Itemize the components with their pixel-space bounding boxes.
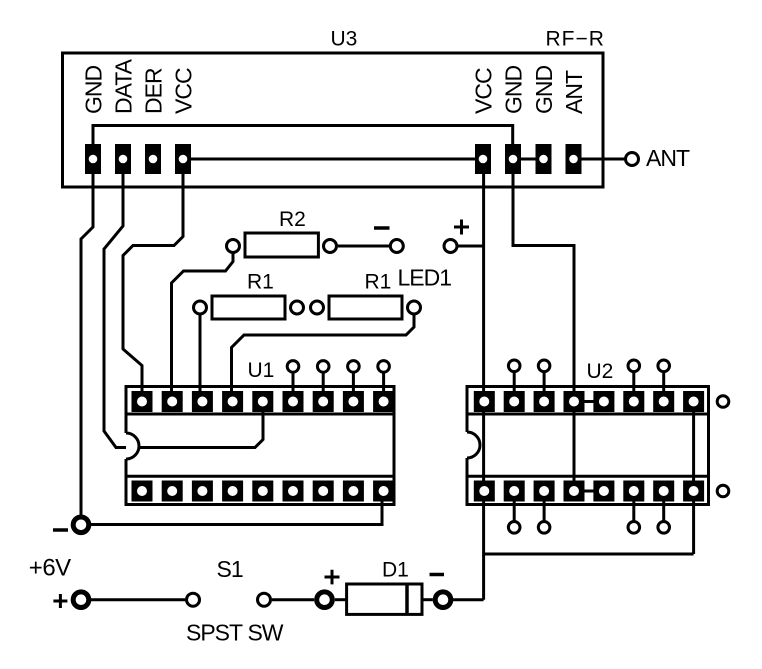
pad U2 top pin 2 xyxy=(504,391,525,412)
terminal R1b left xyxy=(311,301,324,314)
svg-text:R2: R2 xyxy=(279,208,306,231)
IC U3 outline xyxy=(63,53,604,187)
pad U2 top pin 4 xyxy=(564,391,585,412)
node hole above U2 pin 2 xyxy=(508,360,520,393)
svg-text:D1: D1 xyxy=(382,558,409,581)
pad ANT (RF-R) xyxy=(566,144,582,174)
wire battery plus to S1 xyxy=(91,598,185,601)
pad U1 bottom pin 8 xyxy=(343,481,364,502)
terminal R2 right xyxy=(324,240,337,253)
svg-text:S1: S1 xyxy=(217,556,243,582)
wire D1 anode stub xyxy=(335,598,347,601)
wire GND(RF-R) down to U2 pad T4 xyxy=(513,160,574,491)
svg-text:R1: R1 xyxy=(365,271,392,294)
svg-text:U3: U3 xyxy=(331,28,358,51)
terminal R1a right xyxy=(291,301,304,314)
IC U2 socket outline xyxy=(467,387,709,505)
pad U1 bottom pin 1 xyxy=(132,481,153,502)
wire VCC(U3) to U1 pad T1 xyxy=(123,160,183,401)
plus sign (LED) xyxy=(454,220,469,235)
minus sign (battery) xyxy=(53,528,68,532)
wire D1 cathode to VCC rail xyxy=(443,598,484,601)
terminal R1b right xyxy=(408,301,421,314)
diode D1 cathode terminal xyxy=(435,592,451,608)
svg-text:U1: U1 xyxy=(248,359,275,382)
terminal battery plus xyxy=(73,592,89,608)
svg-text:RF−R: RF−R xyxy=(546,28,605,51)
pad U1 top pin 9 xyxy=(373,391,394,412)
pad U1 top pin 6 xyxy=(283,391,304,412)
svg-text:GND: GND xyxy=(531,66,557,115)
pad U2 bottom pin 7 xyxy=(653,481,674,502)
resistor R1a body xyxy=(212,296,285,319)
resistor R1b body xyxy=(329,296,402,319)
pad DATA (U3) xyxy=(115,144,131,174)
terminal LED minus xyxy=(390,240,403,253)
switch S1 right terminal xyxy=(258,593,271,606)
svg-text:GND: GND xyxy=(500,66,526,115)
pad VCC (RF-R) xyxy=(475,144,491,174)
pad U1 bottom pin 7 xyxy=(313,481,334,502)
node hole right of U2 bottom row xyxy=(717,485,729,497)
wire GND-GND link (RF-R) xyxy=(513,158,544,161)
pad U1 top pin 7 xyxy=(313,391,334,412)
pad U2 top pin 8 xyxy=(683,391,704,412)
wire U2 link pads T4-T5 xyxy=(574,400,604,403)
svg-text:SPST SW: SPST SW xyxy=(186,620,284,646)
IC U1 socket outline xyxy=(126,387,394,505)
minus sign (LED) xyxy=(374,226,390,230)
wire GND(U3) to GND(RF-R) top link xyxy=(93,126,513,161)
wire R1a left to U1 pad T3 xyxy=(199,314,202,401)
pad U2 bottom pin 4 xyxy=(564,481,585,502)
pad U1 top pin 5 xyxy=(252,391,273,412)
IC U1 notch xyxy=(126,433,139,459)
wire R1b right to U1 pad T4 xyxy=(232,314,415,401)
pad U2 bottom pin 3 xyxy=(534,481,555,502)
plus sign (D1) xyxy=(325,570,340,585)
pad U2 top pin 3 xyxy=(534,391,555,412)
wire VCC(RF-R) down through U2 pad1 to D1 cathode node xyxy=(482,160,485,600)
pad U2 top pin 7 xyxy=(653,391,674,412)
wire D1 cathode stub xyxy=(422,598,433,601)
minus sign (D1) xyxy=(430,573,445,577)
terminal ANT circle xyxy=(626,153,639,166)
wire U2 link pads B4-B5 xyxy=(574,490,604,493)
pad U1 bottom pin 5 xyxy=(252,481,273,502)
pad U1 bottom pin 9 xyxy=(373,481,394,502)
wire U2 pad T8 down to bottom loop xyxy=(692,402,695,555)
svg-text:ANT: ANT xyxy=(646,145,690,171)
svg-text:DER: DER xyxy=(140,68,166,114)
pad U1 top pin 1 xyxy=(132,391,153,412)
pad U1 top pin 2 xyxy=(162,391,183,412)
svg-text:VCC: VCC xyxy=(470,68,496,114)
svg-text:LED1: LED1 xyxy=(398,265,452,291)
pad U1 bottom pin 4 xyxy=(222,481,243,502)
wire VCC(U3) to VCC(RF-R) xyxy=(183,158,483,161)
node hole below U2 pin 7 xyxy=(658,499,670,533)
node hole above U2 pin 7 xyxy=(658,360,670,393)
pad U1 top pin 4 xyxy=(222,391,243,412)
node hole right of U2 top row xyxy=(717,396,729,408)
node hole below U2 pin 6 xyxy=(628,499,640,533)
pad U1 top pin 8 xyxy=(343,391,364,412)
wire R2 left to U1 pad T2 xyxy=(172,253,234,401)
node hole above U2 pin 6 xyxy=(628,360,640,393)
svg-text:VCC: VCC xyxy=(170,68,196,114)
pad U2 bottom pin 5 xyxy=(593,481,614,502)
wire S1 to D1 anode xyxy=(272,598,314,601)
pad U2 bottom pin 1 xyxy=(474,481,495,502)
resistor R2 body xyxy=(245,233,318,257)
pad U2 top pin 6 xyxy=(623,391,644,412)
wire plus LED terminal to VCC rail xyxy=(458,245,484,248)
wire DATA(U3) to U1 pad T5 through notch xyxy=(104,160,263,448)
pad GND (U3) xyxy=(85,144,101,174)
pad U2 top pin 1 xyxy=(474,391,495,412)
wire R2 right to minus LED terminal xyxy=(338,245,390,248)
svg-text:U2: U2 xyxy=(587,360,614,383)
node hole above U1 pin 9 xyxy=(378,361,390,393)
node hole above U2 pin 3 xyxy=(538,360,550,393)
wire GND(U3) down to minus terminal xyxy=(81,160,93,517)
node hole above U1 pin 6 xyxy=(287,361,299,393)
svg-text:+6V: +6V xyxy=(29,555,71,582)
pad U2 top pin 5 xyxy=(593,391,614,412)
pad VCC (U3) xyxy=(175,144,191,174)
node hole above U1 pin 8 xyxy=(348,361,360,393)
pad U2 bottom pin 6 xyxy=(623,481,644,502)
node hole above U1 pin 7 xyxy=(317,361,329,393)
wire ANT pad to ANT terminal xyxy=(574,158,626,161)
svg-text:ANT: ANT xyxy=(561,70,587,114)
IC U2 notch xyxy=(467,432,480,458)
pad DER (U3) xyxy=(145,144,161,174)
pad U1 top pin 3 xyxy=(192,391,213,412)
switch S1 left terminal xyxy=(187,593,200,606)
wire minus terminal to U1 pad B9 xyxy=(89,500,382,525)
pad U1 bottom pin 6 xyxy=(283,481,304,502)
svg-text:DATA: DATA xyxy=(110,58,136,114)
pad U1 bottom pin 3 xyxy=(192,481,213,502)
diode D1 anode terminal xyxy=(317,592,333,608)
terminal battery minus xyxy=(73,517,89,533)
plus sign (battery) xyxy=(53,594,67,608)
terminal LED plus xyxy=(444,240,457,253)
pad U2 bottom pin 8 xyxy=(683,481,704,502)
diode D1 body xyxy=(347,584,422,614)
node hole below U2 pin 3 xyxy=(538,499,550,533)
node hole below U2 pin 2 xyxy=(508,499,520,533)
svg-text:GND: GND xyxy=(80,66,106,114)
svg-text:R1: R1 xyxy=(247,271,274,294)
terminal R1a left xyxy=(194,301,207,314)
pad GND1 (RF-R) xyxy=(505,144,521,174)
diode D1 cathode band xyxy=(405,584,409,614)
pad GND2 (RF-R) xyxy=(536,144,552,174)
terminal R2 left xyxy=(227,240,240,253)
pad U1 bottom pin 2 xyxy=(162,481,183,502)
pad U2 bottom pin 2 xyxy=(504,481,525,502)
wire bottom loop to U2 pad B8 xyxy=(484,553,694,556)
